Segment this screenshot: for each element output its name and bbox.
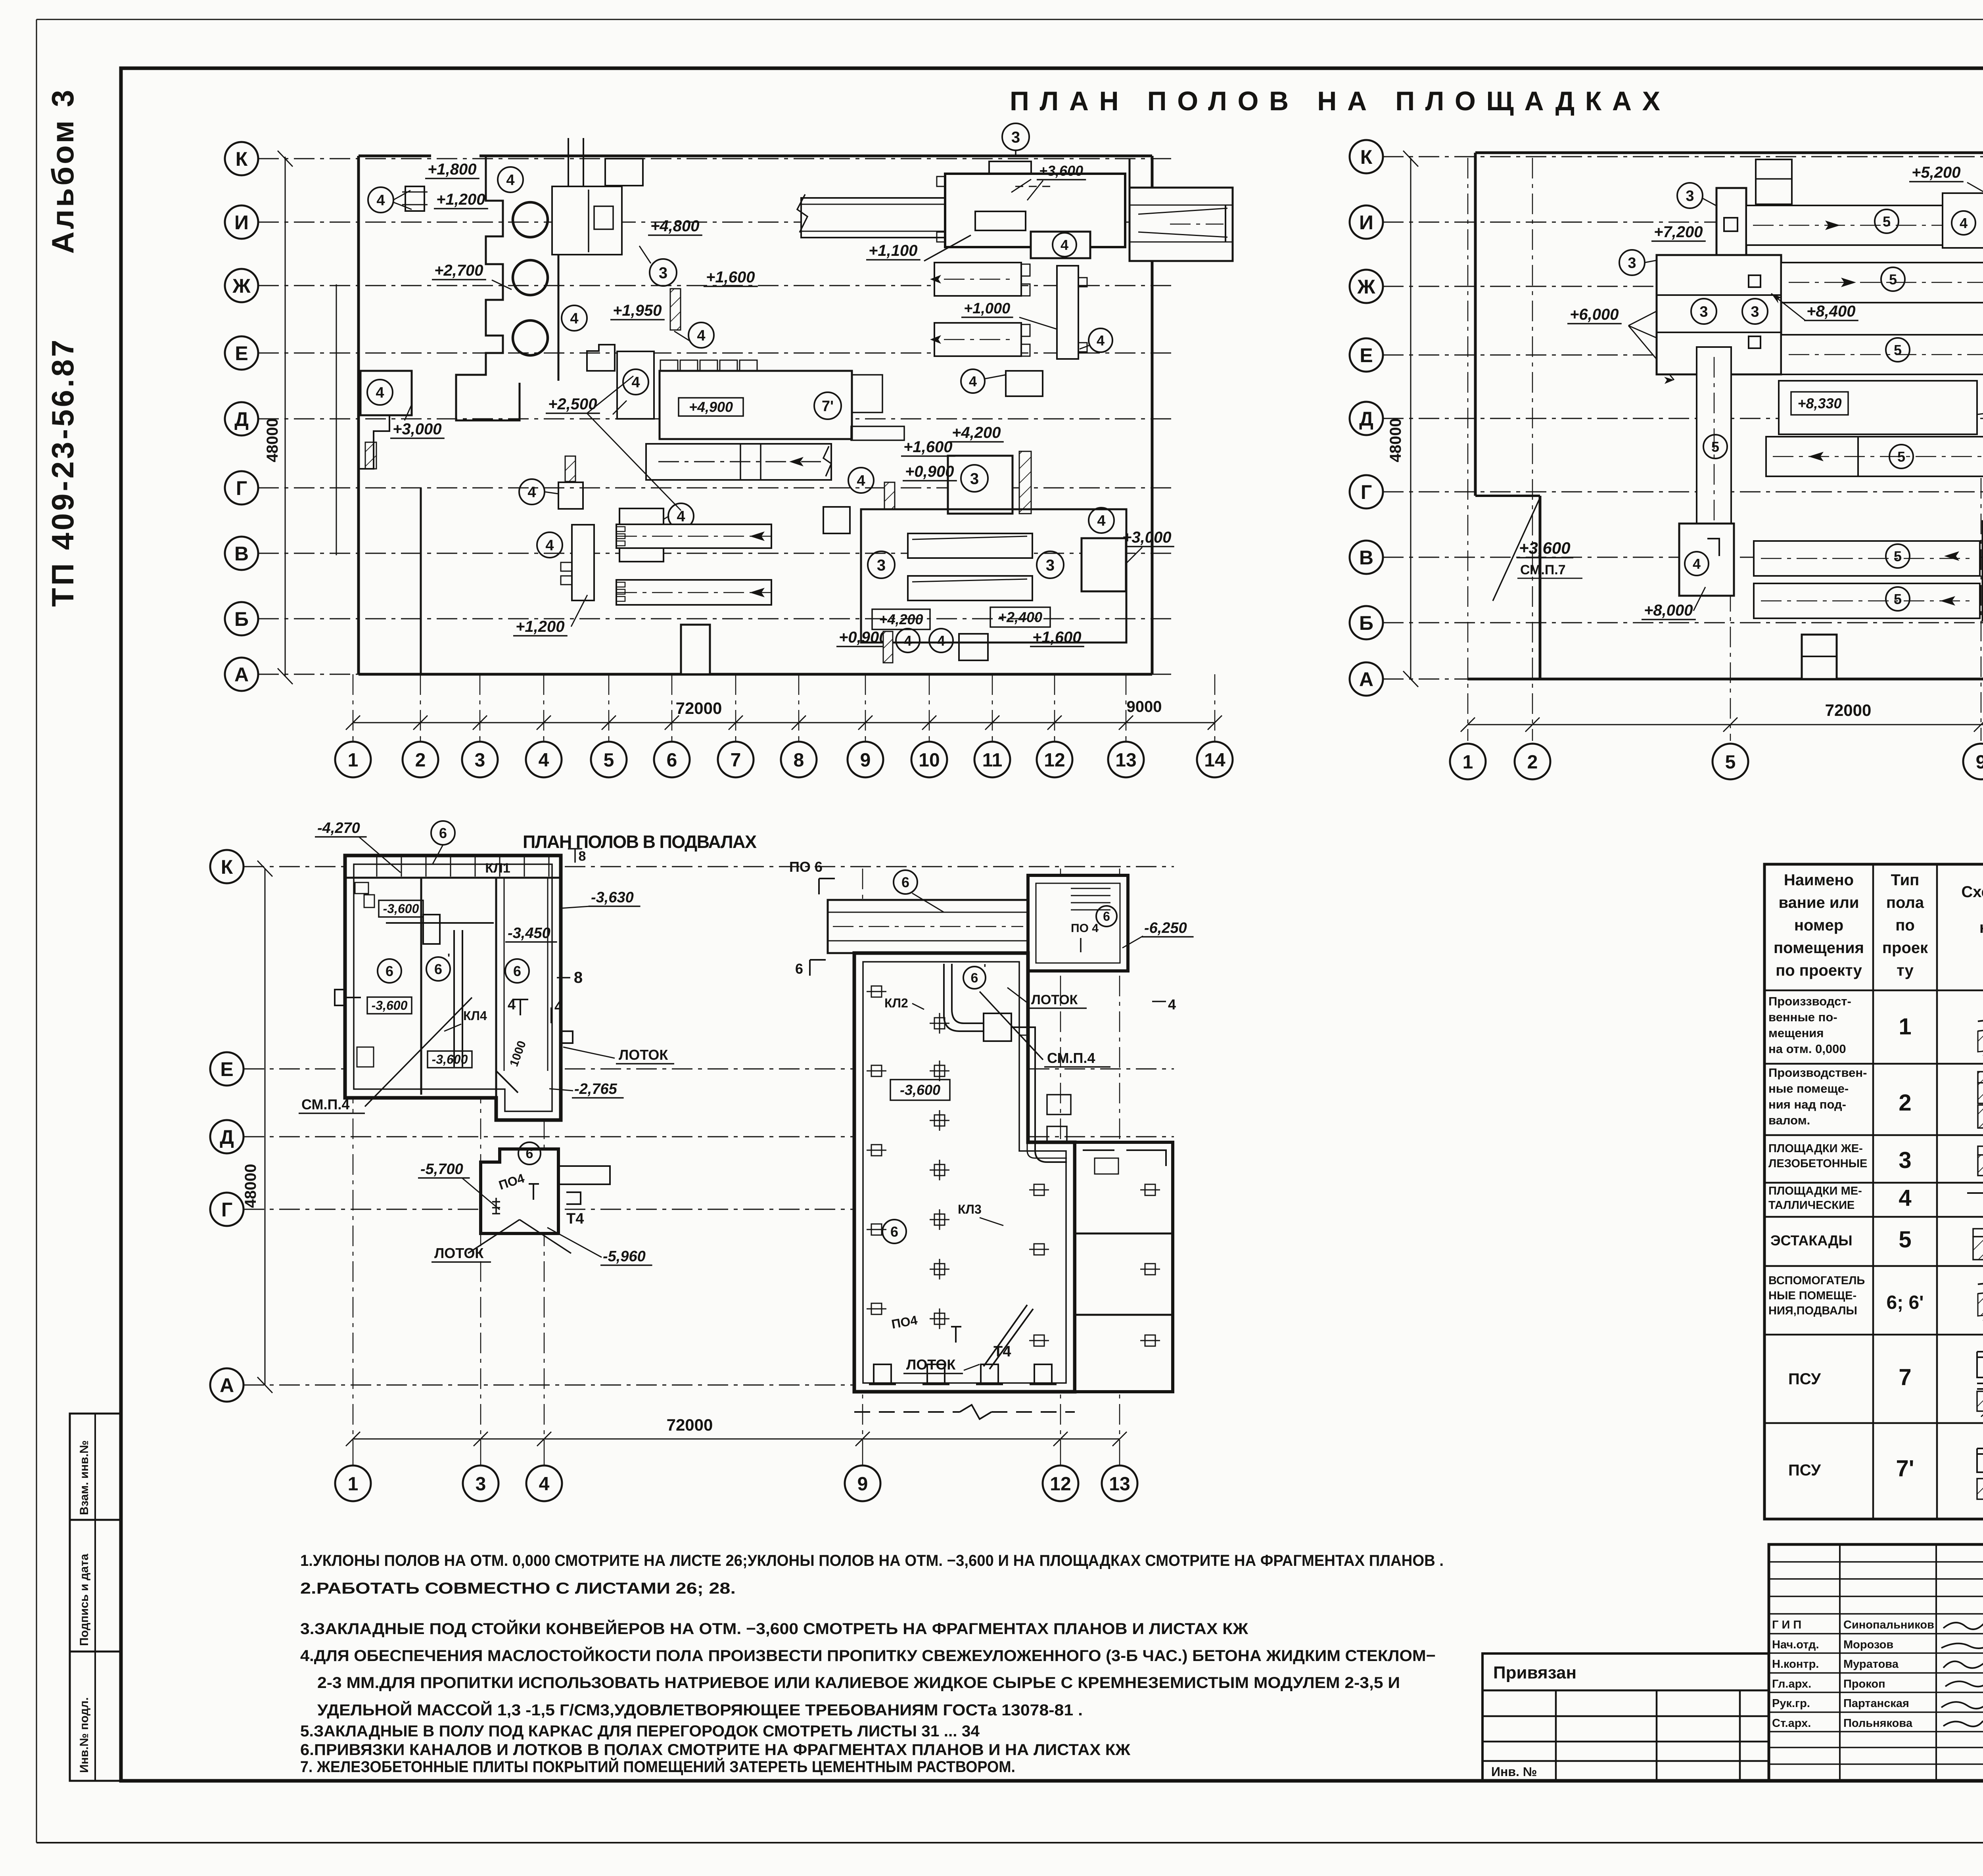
svg-text:на отм. 0,000: на отм. 0,000 bbox=[1768, 1042, 1846, 1056]
svg-text:4: 4 bbox=[1960, 215, 1968, 231]
basement1 label -4270 bbox=[315, 820, 367, 837]
svg-text:4: 4 bbox=[554, 998, 562, 1015]
plan1 label +1000 bbox=[961, 300, 1013, 317]
basement1 small fixtures bbox=[355, 882, 368, 894]
plan1 axis circle Ж bbox=[225, 269, 258, 302]
svg-text:1: 1 bbox=[348, 750, 359, 771]
svg-text:по: по bbox=[1895, 917, 1915, 934]
plan1 circle 3 c bbox=[868, 551, 895, 578]
basement1 circle 6 b bbox=[426, 957, 450, 981]
plan1 axis circle А bbox=[225, 658, 258, 691]
signatures bbox=[1943, 1616, 1983, 1629]
svg-text:+3,000: +3,000 bbox=[393, 420, 441, 438]
svg-text:7': 7' bbox=[822, 398, 834, 415]
plan2 axis circle Д bbox=[1350, 402, 1383, 435]
basement1 KL4 channel bbox=[453, 930, 455, 1067]
basement axis line Г bbox=[244, 1209, 1174, 1210]
plan1 column line 3 bbox=[479, 674, 481, 739]
plan2 column circle 9 bbox=[1963, 744, 1983, 779]
plan1 circle 4 f bbox=[519, 479, 545, 504]
plan1 circle 4 e bbox=[623, 369, 648, 395]
svg-text:Ж: Ж bbox=[232, 275, 251, 297]
svg-text:Производствен-: Производствен- bbox=[1768, 1066, 1867, 1080]
plan1 circle 4 o bbox=[961, 369, 985, 393]
svg-text:3.ЗАКЛАДНЫЕ ПОД СТОЙКИ КОНВ: 3.ЗАКЛАДНЫЕ ПОД СТОЙКИ КОНВЕЙЕРОВ НА ОТМ… bbox=[300, 1619, 1248, 1638]
svg-text:4: 4 bbox=[904, 633, 912, 649]
plan1 band Zh row bbox=[934, 263, 1021, 296]
plan1 axis line К bbox=[258, 158, 1174, 159]
svg-text:2-3 ММ.ДЛЯ ПРОПИТКИ ИСПОЛЬЗО: 2-3 ММ.ДЛЯ ПРОПИТКИ ИСПОЛЬЗОВАТЬ НАТРИЕВ… bbox=[317, 1674, 1400, 1692]
left strip box Inv No podl bbox=[70, 1652, 121, 1781]
svg-text:Подпись и дата: Подпись и дата bbox=[78, 1554, 91, 1646]
svg-text:ПЛАН ПОЛОВ В ПОДВАЛАХ: ПЛАН ПОЛОВ В ПОДВАЛАХ bbox=[523, 832, 757, 852]
plan1 axis line В bbox=[258, 553, 1174, 554]
svg-text:-6,250: -6,250 bbox=[1144, 920, 1187, 936]
plan2 circle 5 b bbox=[1881, 267, 1905, 291]
svg-text:Е: Е bbox=[235, 342, 248, 364]
table column line bbox=[1872, 864, 1874, 1519]
plan1 label +1950 bbox=[610, 302, 665, 320]
svg-text:-3,450: -3,450 bbox=[508, 925, 550, 942]
svg-text:Муратова: Муратова bbox=[1843, 1658, 1899, 1671]
basement column circle 13 bbox=[1102, 1466, 1137, 1501]
svg-text:7: 7 bbox=[731, 750, 741, 771]
svg-text:1: 1 bbox=[1899, 1014, 1911, 1040]
svg-text:-3,600: -3,600 bbox=[383, 902, 419, 916]
svg-text:ПО 4: ПО 4 bbox=[1071, 922, 1099, 935]
svg-text:6: 6 bbox=[385, 963, 393, 979]
plan1 axis circle Е bbox=[225, 336, 258, 370]
plan2 axis line И bbox=[1383, 222, 1983, 223]
plan1 column line 4 bbox=[543, 674, 545, 739]
svg-text:9: 9 bbox=[860, 750, 871, 771]
plan2 axis circle К bbox=[1350, 140, 1383, 173]
plan1 column circle 5 bbox=[591, 742, 627, 777]
plan2 label +8330 bbox=[1791, 392, 1848, 415]
svg-text:8: 8 bbox=[579, 849, 586, 864]
plan1 circle 4 c bbox=[688, 322, 714, 348]
svg-text:Ж: Ж bbox=[1357, 276, 1375, 298]
svg-text:6: 6 bbox=[971, 971, 978, 986]
svg-text:2.РАБОТАТЬ СОВМЕСТНО С ЛИСТ: 2.РАБОТАТЬ СОВМЕСТНО С ЛИСТАМИ 26; 28. bbox=[300, 1580, 736, 1597]
svg-text:А: А bbox=[234, 664, 249, 686]
svg-text:-3,600: -3,600 bbox=[372, 998, 408, 1013]
basement3 column footings bbox=[930, 1013, 949, 1034]
plan1 column circle 2 bbox=[403, 742, 438, 777]
svg-text:+1,600: +1,600 bbox=[706, 269, 755, 286]
plan1 label +0900 a bbox=[903, 463, 957, 481]
svg-text:4: 4 bbox=[1899, 1185, 1911, 1211]
plan1 machine +4900 bbox=[660, 371, 852, 439]
plan2 circle 3 b bbox=[1619, 250, 1645, 275]
svg-text:ния над под-: ния над под- bbox=[1768, 1097, 1846, 1111]
svg-text:+4,800: +4,800 bbox=[650, 217, 699, 235]
svg-text:Т4: Т4 bbox=[566, 1210, 584, 1227]
plan1 column line 5 bbox=[608, 674, 610, 739]
plan1 column line 6 bbox=[671, 674, 673, 739]
svg-text:Г: Г bbox=[236, 477, 247, 499]
table row line bbox=[1764, 990, 1983, 992]
svg-text:+3,600: +3,600 bbox=[1039, 163, 1083, 179]
basement3 bottom footings bbox=[869, 1364, 896, 1384]
svg-text:-3,630: -3,630 bbox=[591, 889, 634, 906]
basement3 top right room bbox=[1028, 875, 1128, 971]
plan1 right duct bbox=[1129, 159, 1131, 188]
svg-text:48000: 48000 bbox=[264, 418, 281, 462]
svg-text:+2,700: +2,700 bbox=[434, 262, 483, 279]
basement1 label -2765 bbox=[572, 1081, 624, 1098]
svg-text:КЛ1: КЛ1 bbox=[485, 861, 510, 876]
svg-text:5: 5 bbox=[1711, 439, 1719, 455]
plan1 column line 9 bbox=[865, 674, 866, 739]
plan2 label +8000 bbox=[1642, 602, 1696, 620]
plan1 axis circle И bbox=[225, 205, 258, 239]
svg-text:6: 6 bbox=[513, 963, 521, 979]
svg-text:Польнякова: Польнякова bbox=[1843, 1717, 1913, 1730]
plan1 vertical dimension 48000 bbox=[285, 157, 286, 676]
svg-text:-4,270: -4,270 bbox=[317, 820, 360, 836]
svg-text:+4,200: +4,200 bbox=[879, 611, 923, 627]
plan2 axis circle Б bbox=[1350, 606, 1383, 639]
svg-text:проек: проек bbox=[1882, 939, 1928, 957]
svg-text:12: 12 bbox=[1044, 750, 1065, 771]
svg-text:4: 4 bbox=[857, 473, 865, 489]
plan1 circle 4 j bbox=[1089, 508, 1114, 533]
plan2 circle 5 c bbox=[1886, 338, 1910, 362]
svg-text:ВСПОМОГАТЕЛЬ: ВСПОМОГАТЕЛЬ bbox=[1768, 1274, 1865, 1287]
svg-text:6: 6 bbox=[526, 1146, 533, 1161]
plan2 axis circle Ж bbox=[1350, 270, 1383, 303]
basement column circle 3 bbox=[463, 1466, 499, 1501]
svg-text:14: 14 bbox=[1204, 750, 1225, 771]
plan1 clip symbol bbox=[405, 186, 424, 211]
plan2 band E bbox=[1781, 335, 1983, 374]
svg-text:3: 3 bbox=[1686, 188, 1694, 205]
svg-text:4: 4 bbox=[376, 385, 384, 401]
plan1 machine tab a bbox=[852, 375, 882, 412]
svg-text:+5,200: +5,200 bbox=[1912, 164, 1960, 181]
svg-text:мещения: мещения bbox=[1768, 1026, 1824, 1040]
svg-text:+2,500: +2,500 bbox=[548, 395, 597, 413]
plan1 label +2400 box bbox=[990, 607, 1050, 627]
plan2 building outline bbox=[1475, 152, 1983, 154]
plan1 column line 1 bbox=[353, 674, 354, 739]
plan2 axis line Ж bbox=[1383, 286, 1983, 287]
svg-text:Синопальников: Синопальников bbox=[1843, 1619, 1934, 1631]
svg-text:ные помеще-: ные помеще- bbox=[1768, 1082, 1849, 1095]
basement3 circle 6 room bbox=[1096, 906, 1117, 926]
basement axis circle Е bbox=[210, 1052, 244, 1086]
basement column line 9 bbox=[862, 869, 863, 1454]
svg-text:4: 4 bbox=[570, 311, 578, 327]
svg-text:Привязан: Привязан bbox=[1493, 1663, 1576, 1682]
plan2 label +5200 bbox=[1909, 164, 1964, 182]
plan2 axis line В bbox=[1383, 557, 1983, 558]
svg-text:5: 5 bbox=[604, 750, 614, 771]
svg-text:+7,200: +7,200 bbox=[1654, 223, 1703, 241]
plan1 axis line А bbox=[258, 674, 1174, 675]
plan1 label +3000 left bbox=[390, 420, 445, 438]
svg-text:3: 3 bbox=[659, 264, 667, 282]
svg-text:Ст.арх.: Ст.арх. bbox=[1772, 1717, 1811, 1730]
plan1 circle 4 d bbox=[562, 305, 587, 331]
plan1 label +0900 b bbox=[836, 629, 891, 646]
svg-text:Б: Б bbox=[1359, 612, 1373, 634]
plan1 label +1600 c bbox=[1030, 629, 1084, 646]
svg-text:4: 4 bbox=[1061, 237, 1068, 253]
basement axis line Е bbox=[244, 1068, 1174, 1070]
svg-text:3: 3 bbox=[1699, 304, 1708, 320]
basement1 label -3600 c bbox=[428, 1051, 472, 1068]
svg-text:КЛ2: КЛ2 bbox=[884, 996, 908, 1010]
svg-text:8: 8 bbox=[574, 969, 583, 986]
plan1 column line 13 bbox=[1126, 674, 1127, 739]
svg-text:6: 6 bbox=[1103, 909, 1110, 924]
plan1 column circle 3 bbox=[462, 742, 498, 777]
svg-text:Произзводст-: Произзводст- bbox=[1768, 994, 1851, 1008]
svg-text:по проекту: по проекту bbox=[1776, 962, 1862, 979]
outer border top bbox=[36, 19, 1983, 20]
title block frame bbox=[1769, 1544, 1983, 1781]
svg-text:Е: Е bbox=[1360, 344, 1373, 366]
explication table frame bbox=[1764, 864, 1983, 1519]
outer border bottom bbox=[36, 1842, 1983, 1843]
plan1 axis line И bbox=[258, 222, 1174, 223]
svg-text:НИЯ,ПОДВАЛЫ: НИЯ,ПОДВАЛЫ bbox=[1768, 1304, 1857, 1317]
svg-text:3: 3 bbox=[1046, 556, 1055, 574]
plan2 big rect sm.p.7 bbox=[1779, 381, 1977, 434]
plan1 column circle 4 bbox=[526, 742, 562, 777]
plan2 axis circle И bbox=[1350, 205, 1383, 239]
plan2 circle 5 e bbox=[1889, 445, 1913, 468]
plan1 box a bbox=[558, 482, 583, 509]
plan1 hatched bar c bbox=[565, 456, 575, 481]
svg-text:3: 3 bbox=[476, 1473, 486, 1494]
plan1 circle 4 g bbox=[668, 503, 694, 529]
plan1 column circle 9 bbox=[848, 742, 883, 777]
basement axis circle Г bbox=[210, 1193, 244, 1226]
svg-text:-3,600: -3,600 bbox=[432, 1052, 468, 1067]
plan1 label +1200 bbox=[434, 191, 488, 209]
svg-text:+4,200: +4,200 bbox=[952, 424, 1001, 441]
svg-text:К: К bbox=[221, 856, 233, 878]
svg-text:48000: 48000 bbox=[1387, 418, 1404, 462]
left strip box Podpis i data bbox=[70, 1520, 121, 1652]
plan1 step symbol bbox=[587, 345, 615, 371]
plan2 circle 3 a bbox=[1677, 183, 1703, 208]
svg-text:6: 6 bbox=[439, 825, 447, 841]
svg-text:Схема пола или: Схема пола или bbox=[1961, 883, 1983, 901]
svg-text:Г: Г bbox=[221, 1199, 232, 1221]
plan1 circle 3 a bbox=[650, 259, 677, 286]
plan2 axis line К bbox=[1383, 156, 1983, 157]
plan1 top room bbox=[552, 186, 622, 255]
plan2 horizontal dimension line bbox=[1468, 724, 1983, 725]
svg-text:9: 9 bbox=[1976, 752, 1983, 773]
svg-text:ТП 409-23-56.87: ТП 409-23-56.87 bbox=[45, 338, 80, 607]
plan2 vertical conveyor bbox=[1697, 347, 1731, 549]
basement1 top channel bbox=[345, 877, 561, 879]
plan1 stepped wall bbox=[456, 157, 520, 420]
svg-text:4: 4 bbox=[1168, 996, 1176, 1013]
plan2 column line 9 bbox=[1981, 478, 1982, 741]
svg-text:4: 4 bbox=[697, 328, 705, 344]
svg-text:3: 3 bbox=[1011, 129, 1020, 146]
svg-text:+1,950: +1,950 bbox=[613, 302, 662, 319]
plan1 column line 10 bbox=[929, 674, 930, 739]
plan2 band G bbox=[1766, 437, 1983, 476]
svg-text:+4,900: +4,900 bbox=[689, 399, 733, 415]
svg-text:6.ПРИВЯЗКИ КАНАЛОВ И ЛОТКОВ: 6.ПРИВЯЗКИ КАНАЛОВ И ЛОТКОВ В ПОЛАХ СМОТ… bbox=[300, 1741, 1131, 1759]
basement3 circle 6 top bbox=[894, 870, 917, 894]
plan1 room top notch bbox=[989, 161, 1031, 174]
svg-text:ПЛОЩАДКИ ЖЕ-: ПЛОЩАДКИ ЖЕ- bbox=[1768, 1142, 1863, 1155]
plan1 axis circle Г bbox=[225, 471, 258, 504]
basement3 tall building walls bbox=[854, 953, 1075, 1392]
plan1 column line 12 bbox=[1054, 674, 1055, 739]
svg-text:Инв.№ подл.: Инв.№ подл. bbox=[78, 1697, 91, 1773]
plan2 circle 3 d bbox=[1742, 299, 1768, 324]
svg-text:6: 6 bbox=[667, 750, 677, 771]
basement column line 12 bbox=[1060, 869, 1061, 1454]
basement1 door rect bbox=[423, 915, 440, 944]
svg-text:ПЛАН ПОЛОВ НА ПЛОЩАДКАХ: ПЛАН ПОЛОВ НА ПЛОЩАДКАХ bbox=[1010, 86, 1660, 116]
basement1 label -3600 b bbox=[367, 997, 412, 1014]
plan1 label +4200 a bbox=[949, 424, 1004, 442]
basement2 label -5700 bbox=[418, 1161, 470, 1178]
plan2 bottom block of vertical conveyor bbox=[1679, 524, 1734, 596]
left strip box Vzam inv bbox=[70, 1414, 121, 1520]
table row line bbox=[1764, 1134, 1983, 1136]
plan1 column circle 11 bbox=[974, 742, 1010, 777]
plan2 column line 5 bbox=[1730, 377, 1731, 741]
svg-text:ПО 6: ПО 6 bbox=[789, 859, 823, 875]
svg-text:+1,600: +1,600 bbox=[903, 438, 952, 456]
svg-text:4: 4 bbox=[1097, 332, 1105, 349]
svg-text:вание или: вание или bbox=[1778, 894, 1859, 911]
basement axis circle К bbox=[210, 850, 244, 883]
svg-text:К: К bbox=[1360, 146, 1373, 168]
svg-text:Взам. инв.№: Взам. инв.№ bbox=[78, 1440, 91, 1515]
svg-text:7: 7 bbox=[1899, 1364, 1911, 1390]
plan1 box d bbox=[1082, 538, 1126, 591]
plan1 column line 8 bbox=[798, 674, 800, 739]
svg-text:5: 5 bbox=[1894, 548, 1902, 564]
plan1 central room +1,100 bbox=[945, 174, 1125, 247]
basement axis line А bbox=[244, 1385, 1174, 1386]
outer border left bbox=[36, 19, 37, 1843]
plan1 label +1200 b bbox=[513, 618, 568, 636]
plan1 box b bbox=[619, 508, 664, 562]
plan1 box g bbox=[1006, 371, 1043, 396]
svg-text:3: 3 bbox=[877, 556, 886, 574]
basement2 circle 6 bbox=[518, 1142, 541, 1164]
svg-text:пола: пола bbox=[1886, 894, 1924, 911]
plan1 label +1600 b bbox=[901, 438, 955, 456]
svg-text:УДЕЛЬНОЙ МАССОЙ 1,3 -1,5 Г/СМ: УДЕЛЬНОЙ МАССОЙ 1,3 -1,5 Г/СМ3,УДОВЛЕТВО… bbox=[317, 1701, 1083, 1719]
svg-text:+0,900: +0,900 bbox=[839, 629, 888, 646]
plan1 label +4200 box bbox=[872, 609, 930, 629]
plan1 small hatch below D bbox=[365, 442, 376, 469]
plan1 cluster bands bbox=[908, 533, 1032, 558]
svg-text:СМ.П.4: СМ.П.4 bbox=[301, 1096, 349, 1113]
plan1 box c bbox=[948, 456, 1013, 514]
svg-text:+1,600: +1,600 bbox=[1032, 629, 1081, 646]
svg-text:12: 12 bbox=[1050, 1473, 1071, 1494]
svg-text:13: 13 bbox=[1115, 750, 1136, 771]
plan2 circle 3 c bbox=[1691, 299, 1716, 324]
plan2 axis line Г bbox=[1383, 491, 1983, 493]
plan2 vertical dimension 48000 bbox=[1410, 158, 1411, 679]
svg-text:3: 3 bbox=[1628, 255, 1636, 272]
plan2 label +8400 bbox=[1804, 303, 1858, 320]
svg-text:3: 3 bbox=[1899, 1147, 1911, 1173]
svg-text:Д: Д bbox=[1359, 408, 1373, 430]
plan1 small steps bbox=[561, 562, 572, 585]
plan1 column circle 6 bbox=[654, 742, 690, 777]
svg-text:5: 5 bbox=[1899, 1227, 1911, 1253]
basement1 label -3630 bbox=[589, 889, 641, 906]
plan1 column circle 7 bbox=[718, 742, 754, 777]
plan1 circle 4 m bbox=[367, 380, 393, 405]
svg-text:10: 10 bbox=[919, 750, 940, 771]
basement3 diagonal channel bbox=[984, 1305, 1033, 1369]
svg-text:13: 13 bbox=[1109, 1473, 1130, 1494]
svg-text:3: 3 bbox=[1751, 304, 1759, 320]
plan1 box e bbox=[959, 634, 988, 660]
svg-text:6: 6 bbox=[434, 961, 442, 977]
svg-text:СМ.П.7: СМ.П.7 bbox=[1520, 562, 1566, 577]
svg-text:5: 5 bbox=[1894, 591, 1902, 607]
plan1 door rect bbox=[572, 525, 594, 600]
plan1 label +1600 a bbox=[704, 269, 758, 286]
basement column line 13 bbox=[1119, 869, 1120, 1454]
table column line bbox=[1936, 864, 1938, 1519]
plan2 conveyor row I bbox=[1746, 205, 1983, 245]
svg-text:7. ЖЕЛЕЗОБЕТОННЫЕ ПЛИТЫ ПОКР: 7. ЖЕЛЕЗОБЕТОННЫЕ ПЛИТЫ ПОКРЫТИЙ ПОМЕЩЕН… bbox=[300, 1757, 1015, 1776]
basement1 channel inner b bbox=[547, 878, 548, 1071]
plan1 tall rect bbox=[1057, 266, 1078, 359]
plan1 axis circle Д bbox=[225, 402, 258, 435]
svg-text:А: А bbox=[220, 1374, 234, 1396]
basement3 label -6250 bbox=[1142, 920, 1194, 937]
plan1 axis line Ж bbox=[258, 285, 1174, 286]
svg-text:+8,330: +8,330 bbox=[1797, 395, 1841, 412]
plan2 axis circle В bbox=[1350, 541, 1383, 574]
svg-text:ТАЛЛИЧЕСКИЕ: ТАЛЛИЧЕСКИЕ bbox=[1768, 1199, 1855, 1212]
basement2 label -5960 bbox=[600, 1248, 652, 1265]
plan1 machine tab b bbox=[851, 426, 904, 440]
basement1 inner wall horiz bbox=[386, 922, 494, 924]
svg-text:Наимено: Наимено bbox=[1784, 871, 1854, 889]
plan2 column circle 5 bbox=[1713, 744, 1748, 779]
svg-text:5: 5 bbox=[1725, 752, 1736, 773]
basement3 dashed break line bbox=[854, 1411, 960, 1413]
svg-text:-5,960: -5,960 bbox=[603, 1248, 646, 1265]
plan1 hatched bar a bbox=[670, 289, 681, 330]
table row line bbox=[1764, 1334, 1983, 1336]
basement3 circle 6prime a bbox=[963, 967, 986, 989]
svg-text:ту: ту bbox=[1897, 962, 1914, 979]
svg-text:+1,200: +1,200 bbox=[436, 191, 485, 208]
svg-text:Д: Д bbox=[234, 408, 249, 430]
basement axis circle Д bbox=[210, 1120, 244, 1153]
plan2 axis circle А bbox=[1350, 662, 1383, 696]
svg-text:6: 6 bbox=[901, 874, 909, 890]
plan1 box at D bbox=[361, 371, 412, 415]
plan2 axis line Е bbox=[1383, 355, 1983, 356]
table row line bbox=[1764, 1216, 1983, 1218]
